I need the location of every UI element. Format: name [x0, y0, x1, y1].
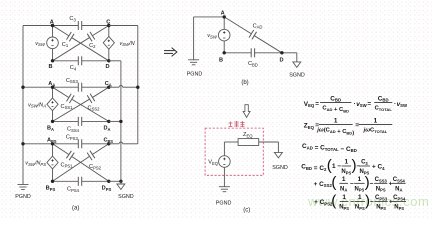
label (b)	[241, 80, 248, 86]
svg-text:CPS4: CPS4	[67, 187, 80, 193]
wire C to outer rail	[109, 25, 138, 27]
svg-text:CPS3: CPS3	[375, 195, 388, 201]
wire A to source vSW	[52, 26, 54, 38]
arrow implies right	[164, 48, 177, 57]
node D (b)	[279, 51, 283, 63]
wire Aps to source	[52, 144, 54, 156]
svg-text:CA: CA	[105, 81, 112, 87]
svg-text:1: 1	[358, 194, 362, 201]
source vSW/NPS	[25, 156, 58, 169]
svg-text:NPS: NPS	[354, 186, 364, 192]
wire A to PGND (b)	[194, 17, 225, 60]
junction Da-rail	[119, 120, 122, 123]
node A	[50, 19, 54, 27]
node Dps	[102, 180, 112, 192]
capacitor Cps4	[67, 177, 82, 193]
node B (b)	[219, 51, 226, 63]
wire VEQ to PGND (c)	[223, 167, 225, 186]
wire VEQ to ZEQ (c)	[224, 142, 238, 156]
svg-text:NPS: NPS	[376, 205, 386, 211]
svg-text:SGND: SGND	[272, 165, 288, 171]
svg-text:AA: AA	[48, 81, 55, 87]
svg-text:CSS4: CSS4	[67, 127, 80, 133]
capacitor CBD (b)	[248, 48, 258, 67]
capacitor Cps2	[87, 151, 102, 171]
wire B-D (b)	[224, 52, 282, 54]
wire A to left rail	[23, 25, 53, 27]
svg-text:D: D	[279, 58, 283, 64]
capacitor Css1	[61, 94, 75, 110]
capacitor C4	[70, 56, 82, 71]
svg-text:APS: APS	[47, 138, 57, 144]
junction Ca-rail	[136, 86, 139, 89]
wire left rail (PGND net)	[22, 26, 24, 185]
capacitor C1	[62, 32, 74, 48]
wire source to B (b)	[223, 41, 225, 53]
svg-text:B: B	[48, 64, 52, 70]
node C	[106, 19, 110, 27]
svg-text:(a): (a)	[72, 206, 79, 212]
wire Cps to outer rail	[109, 142, 138, 144]
svg-text:PGND: PGND	[187, 72, 203, 78]
wire diagonal Bps-Cps	[53, 144, 109, 182]
ground SGND (c)	[272, 152, 288, 170]
node Da	[103, 120, 110, 132]
source VEQ	[208, 156, 230, 168]
ground PGND (b)	[187, 60, 203, 78]
node D	[105, 59, 110, 70]
svg-text:1 −: 1 −	[332, 163, 341, 170]
junction rail-Aa	[21, 86, 24, 89]
svg-text:CPS3: CPS3	[66, 135, 79, 141]
equations	[301, 95, 408, 211]
junction rail-Aps	[21, 142, 24, 145]
ground SGND (b)	[289, 62, 305, 79]
svg-text:CSS4: CSS4	[393, 177, 406, 183]
wire outer rail (C net)	[137, 26, 139, 144]
svg-text:1: 1	[334, 117, 338, 124]
capacitor Css2	[87, 94, 100, 112]
capacitor C2	[87, 32, 96, 49]
source vSW (b)	[207, 29, 230, 41]
svg-text:C3: C3	[69, 16, 76, 22]
svg-text:C1: C1	[62, 42, 69, 48]
svg-text:1: 1	[342, 194, 346, 201]
svg-text:C2: C2	[89, 43, 96, 49]
wire Ca to outer rail	[109, 85, 138, 87]
wire Dps to inner rail	[109, 180, 121, 182]
wire source to Bps	[52, 169, 54, 181]
svg-text:A: A	[50, 19, 54, 25]
svg-text:CPS4: CPS4	[393, 195, 406, 201]
ground PGND (c)	[216, 187, 232, 207]
svg-text:(c): (c)	[243, 208, 250, 214]
box thevenin dashed	[205, 128, 263, 175]
svg-text:NPS: NPS	[339, 205, 349, 211]
svg-text:vSW/NA: vSW/NA	[28, 102, 46, 108]
capacitor C3	[69, 16, 81, 30]
wire diagonal Ba-Ca	[53, 87, 109, 121]
svg-text:CSS3: CSS3	[375, 177, 388, 183]
node Ca	[105, 81, 112, 89]
svg-text:NPS: NPS	[341, 169, 351, 175]
svg-text:BA: BA	[47, 126, 54, 132]
node B	[48, 59, 54, 70]
node Aa	[48, 81, 55, 89]
svg-text:vSW: vSW	[35, 41, 46, 47]
source vSW/NA	[28, 98, 58, 111]
svg-text:CPS2: CPS2	[89, 164, 102, 170]
source vSW/N	[103, 36, 135, 49]
svg-text:BPS: BPS	[46, 186, 56, 192]
label (a)	[72, 206, 79, 212]
wire C to source vSW/N	[108, 26, 110, 37]
wire diagonal B-C	[53, 26, 109, 61]
wire A-C top	[53, 25, 109, 27]
svg-text:(: (	[331, 192, 336, 209]
svg-text:−: −	[350, 199, 354, 206]
node Cps	[103, 138, 113, 146]
svg-text:CSS1: CSS1	[61, 104, 74, 110]
wire diagonal A-D (b)	[224, 17, 282, 53]
svg-text:CTOTAL: CTOTAL	[375, 106, 393, 112]
svg-text:−: −	[370, 180, 374, 187]
ground SGND (a)	[117, 181, 134, 200]
svg-text:VEQ: VEQ	[208, 160, 219, 166]
svg-text:C4: C4	[70, 65, 77, 71]
svg-text:NPS: NPS	[394, 205, 404, 211]
label thevenin (red)	[229, 121, 245, 127]
capacitor Cps1	[61, 151, 75, 169]
svg-text:PGND: PGND	[15, 194, 31, 200]
wire diagonal Aps-Dps	[53, 144, 109, 182]
arrow implies down	[243, 105, 250, 118]
junction Dps-rail	[119, 180, 122, 183]
wire stub rail to node Aps	[23, 143, 53, 145]
node Aps	[47, 138, 57, 146]
svg-text:=: =	[315, 100, 319, 107]
wire D to inner rail	[109, 60, 121, 62]
svg-text:SGND: SGND	[118, 194, 134, 200]
capacitor Css3	[66, 78, 82, 92]
svg-text:vSW: vSW	[207, 33, 218, 39]
label (c)	[243, 208, 250, 214]
wire B-D bottom	[53, 60, 109, 62]
svg-text:NA: NA	[395, 186, 402, 192]
svg-text:B: B	[219, 58, 223, 64]
svg-text:1: 1	[374, 117, 378, 124]
svg-text:CSS2: CSS2	[88, 105, 101, 111]
svg-text:−: −	[370, 199, 374, 206]
svg-text:NA: NA	[340, 186, 347, 192]
svg-text:CPS1: CPS1	[61, 162, 74, 168]
svg-text:CSS3: CSS3	[66, 78, 79, 84]
svg-text:PGND: PGND	[216, 201, 232, 207]
wire D to SGND (b)	[282, 53, 297, 62]
svg-text:(b): (b)	[241, 80, 248, 86]
capacitor Css4	[67, 117, 82, 133]
svg-text:D: D	[105, 64, 109, 70]
svg-text:CPS: CPS	[103, 138, 113, 144]
svg-text:(: (	[331, 174, 336, 191]
svg-text:1: 1	[342, 176, 346, 183]
svg-text:jωCTOTAL: jωCTOTAL	[363, 128, 388, 134]
wire source to B	[52, 49, 54, 61]
wire Ba-Da bottom	[53, 120, 109, 122]
capacitor CAD (b)	[249, 23, 262, 39]
svg-text:DPS: DPS	[102, 186, 112, 192]
node Bps	[46, 180, 56, 192]
wire diagonal Aa-Da	[53, 87, 109, 121]
svg-text:=: =	[355, 122, 359, 129]
node A (b)	[221, 10, 226, 18]
svg-text:C: C	[106, 19, 110, 25]
wire A to source (b)	[223, 17, 225, 29]
watermark	[307, 194, 429, 209]
wire inner rail (D net)	[120, 61, 122, 182]
wire source to Ba	[52, 111, 54, 122]
svg-text:NPS: NPS	[355, 205, 365, 211]
ground PGND (a)	[15, 185, 31, 201]
svg-text:SGND: SGND	[289, 73, 305, 79]
svg-text:ZEQ: ZEQ	[243, 132, 253, 138]
svg-text:1: 1	[358, 176, 362, 183]
wire diagonal A-D	[53, 26, 109, 61]
svg-text:=: =	[367, 100, 371, 107]
wire Aa-Ca top	[53, 86, 109, 88]
capacitor Cps3	[66, 135, 82, 149]
svg-text:A: A	[221, 10, 225, 16]
node Ba	[47, 120, 54, 132]
source vSW	[35, 37, 58, 49]
impedance ZEQ	[238, 132, 259, 145]
svg-text:−: −	[350, 180, 354, 187]
svg-text:CAD: CAD	[253, 23, 263, 29]
wire Bps-Dps bottom	[53, 180, 109, 182]
wire Da to inner rail	[109, 120, 121, 122]
wire source to D	[108, 49, 110, 61]
svg-text:NPS: NPS	[376, 186, 386, 192]
svg-text:1: 1	[345, 159, 349, 166]
svg-text:CBD: CBD	[248, 61, 258, 67]
svg-text:vSW/N: vSW/N	[120, 41, 136, 47]
wire ZEQ to SGND (c)	[259, 142, 279, 152]
svg-text:DA: DA	[103, 126, 110, 132]
wire stub rail to node Aa	[23, 86, 53, 88]
wire Aps-Cps top	[53, 143, 109, 145]
wire Aa to source	[52, 87, 54, 98]
svg-text:C3: C3	[361, 160, 368, 166]
svg-text:vSW/NPS: vSW/NPS	[25, 161, 46, 167]
